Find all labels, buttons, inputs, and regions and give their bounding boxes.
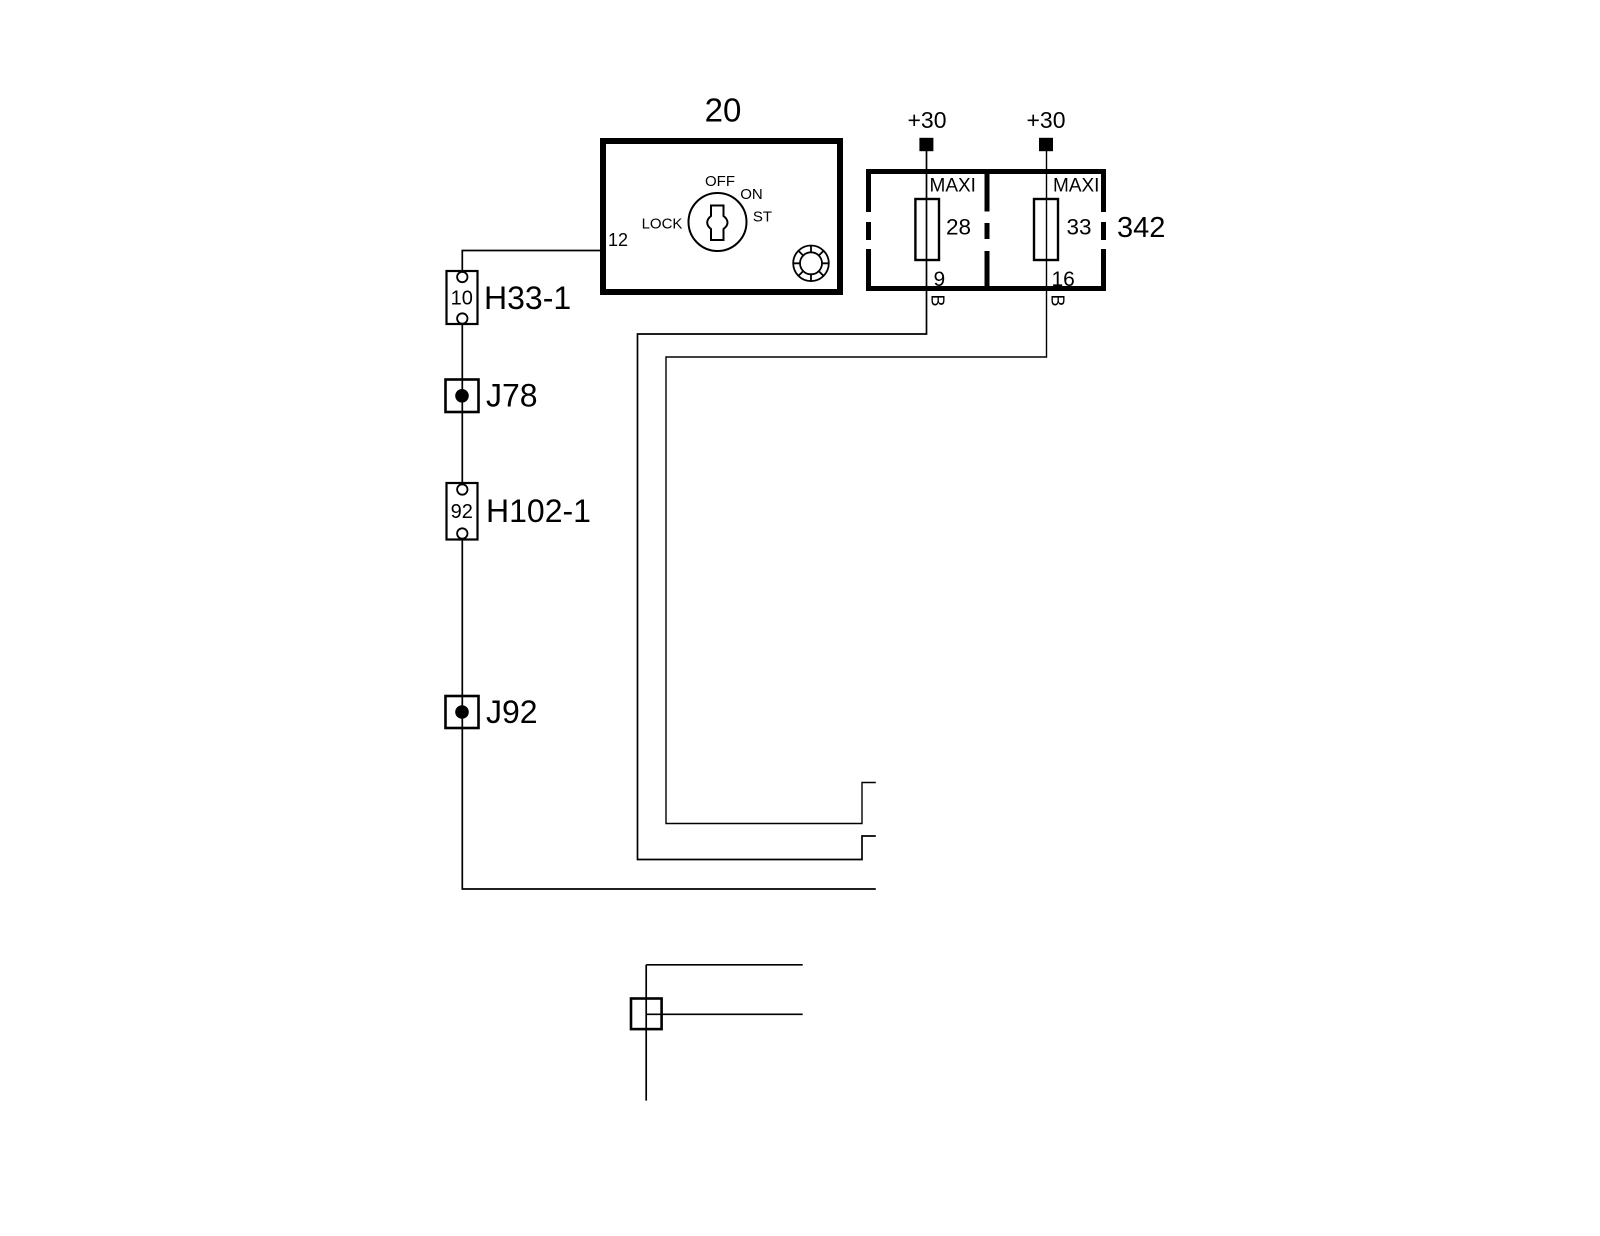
svg-text:B: B	[928, 295, 948, 307]
key switch rotor circle	[689, 193, 747, 251]
fuse 33 element	[1034, 199, 1058, 260]
wire: fuse 33 output B down-left-down to ECU pin 12	[666, 151, 1047, 824]
svg-text:J92: J92	[486, 694, 538, 730]
splice J104	[631, 999, 662, 1030]
ignition switch 20 box	[603, 141, 840, 292]
svg-text:J78: J78	[486, 377, 538, 413]
svg-text:33: 33	[1067, 215, 1092, 240]
svg-text:OFF: OFF	[705, 173, 735, 190]
wire: J104 to ECU pin 11	[646, 1013, 803, 1015]
connector H102-1	[447, 483, 478, 540]
svg-text:342: 342	[1117, 212, 1165, 244]
svg-text:ON: ON	[740, 186, 763, 203]
svg-text:+30: +30	[1026, 107, 1065, 133]
svg-text:+30: +30	[907, 107, 946, 133]
svg-text:MAXI: MAXI	[1053, 176, 1099, 197]
svg-text:LOCK: LOCK	[642, 216, 683, 233]
key symbol	[707, 206, 727, 241]
svg-text:92: 92	[451, 501, 473, 523]
svg-text:10: 10	[451, 288, 473, 310]
wire: J104 down to ground G15	[645, 965, 647, 1101]
splice J92 dot	[455, 705, 469, 719]
wire: fuse 28 output B down-left-down to ECU pin 25	[638, 151, 927, 860]
connector H33-1	[447, 271, 478, 324]
wire: ignition switch pin 12 to H33-1/J78/H102-1/J92 down to ECU pin 23	[462, 251, 876, 890]
svg-text:20: 20	[705, 92, 742, 129]
svg-text:H102-1: H102-1	[486, 493, 591, 529]
+30 terminal square left	[919, 138, 933, 151]
wire: ECU pin 24 to J104 junction	[646, 964, 803, 966]
svg-text:ST: ST	[753, 209, 772, 226]
svg-text:16: 16	[1052, 268, 1075, 291]
+30 terminal square right	[1039, 138, 1053, 151]
svg-text:12: 12	[608, 230, 628, 250]
svg-text:28: 28	[946, 215, 971, 240]
fusebox 342 dashed border	[866, 169, 1106, 291]
splice J78 dot	[455, 389, 469, 403]
svg-text:H33-1: H33-1	[484, 280, 571, 316]
splice J92	[446, 696, 479, 728]
svg-text:B: B	[1048, 295, 1068, 307]
fuse 28 element	[915, 199, 939, 260]
svg-text:9: 9	[934, 268, 946, 291]
svg-text:MAXI: MAXI	[930, 176, 976, 197]
lamp ring symbol in switch	[793, 245, 829, 281]
splice J78	[446, 380, 479, 413]
